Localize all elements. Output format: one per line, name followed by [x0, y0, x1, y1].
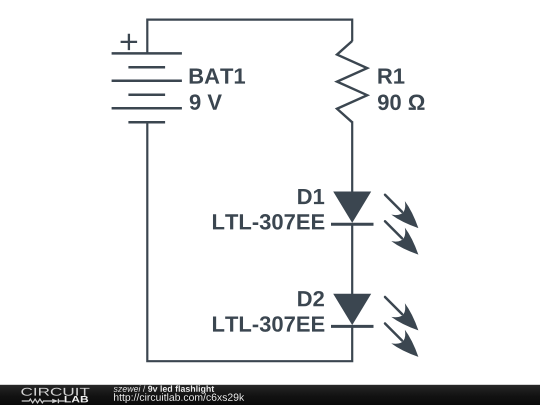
- LED D1 cathode bar: [331, 223, 374, 226]
- resistor R1 zigzag body: [337, 41, 367, 122]
- CircuitLab logo diode symbol: [52, 399, 64, 403]
- wire resistor R1 to LED D1: [351, 121, 353, 192]
- LED D2 light arrow 1: [378, 290, 425, 337]
- LED D2 cathode bar: [331, 325, 374, 328]
- label D1 name: [298, 189, 324, 204]
- CircuitLab logo LAB wordmark: [65, 396, 88, 402]
- label BAT1 value 9 V: [190, 94, 222, 110]
- CircuitLab logo CIRCUIT wordmark: [21, 388, 89, 396]
- wire LED D2 to battery negative (bottom net): [147, 121, 352, 361]
- label D2 value LTL-307EE: [213, 316, 324, 332]
- wire battery positive to resistor top (top net): [147, 20, 352, 55]
- footer black bar: [0, 385, 540, 405]
- battery BAT1 plate long 3: [112, 107, 182, 110]
- LED D2 light arrow 2: [378, 317, 425, 364]
- LED D1 triangle (anode): [333, 192, 371, 223]
- LED D1 light arrow 1: [378, 188, 425, 235]
- battery BAT1 plate short 2: [128, 93, 165, 96]
- wire LED D1 to LED D2: [351, 224, 353, 294]
- label D1 value LTL-307EE: [213, 214, 324, 230]
- battery BAT1 plate short 1: [128, 66, 165, 69]
- label R1 value 90 ohm: [378, 95, 425, 111]
- LED D2 triangle (anode): [333, 294, 371, 325]
- battery BAT1 plate long 2: [112, 80, 182, 83]
- CircuitLab logo resistor squiggle lead wire: [22, 399, 52, 403]
- footer title text: [114, 385, 215, 393]
- label D2 name: [298, 291, 324, 306]
- battery BAT1 plus sign: [121, 34, 138, 50]
- label BAT1 name: [190, 68, 245, 83]
- LED D1 light arrow 2: [378, 215, 425, 262]
- label R1 name: [378, 68, 404, 83]
- battery BAT1 plate short 3 (negative): [128, 121, 165, 124]
- footer url text: [114, 393, 244, 403]
- battery BAT1 plate long 1 (positive): [112, 52, 182, 55]
